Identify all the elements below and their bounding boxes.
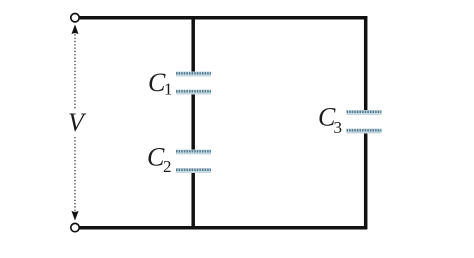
wire middle branch upper (top wire to C1 top plate): [191, 16, 195, 73]
capacitor C3: [347, 110, 382, 134]
wire middle branch middle (C1 bottom plate to C2 top plate): [191, 93, 195, 153]
wire right branch upper (top-right corner to C3 top plate): [364, 16, 368, 112]
V arrowhead down: [71, 211, 78, 221]
wire right branch lower (C3 bottom plate to bottom-right corner): [364, 131, 368, 230]
V arrow dashed line upper: [74, 31, 76, 109]
terminal bottom-left: [71, 223, 79, 231]
wire top (node a: top-left terminal to top-right corner): [79, 16, 367, 20]
capacitor C2: [176, 150, 211, 174]
V arrowhead up: [71, 24, 78, 34]
svg-text:1: 1: [164, 80, 173, 99]
svg-text:3: 3: [334, 118, 343, 137]
terminal top-left: [71, 14, 79, 22]
capacitor C1: [176, 72, 211, 95]
svg-text:2: 2: [163, 157, 172, 176]
V arrow dashed line lower: [74, 137, 76, 212]
wire middle branch lower (C2 bottom plate to bottom wire): [191, 171, 195, 230]
wire bottom (node b: bottom-left terminal to bottom-right corner): [79, 226, 367, 230]
